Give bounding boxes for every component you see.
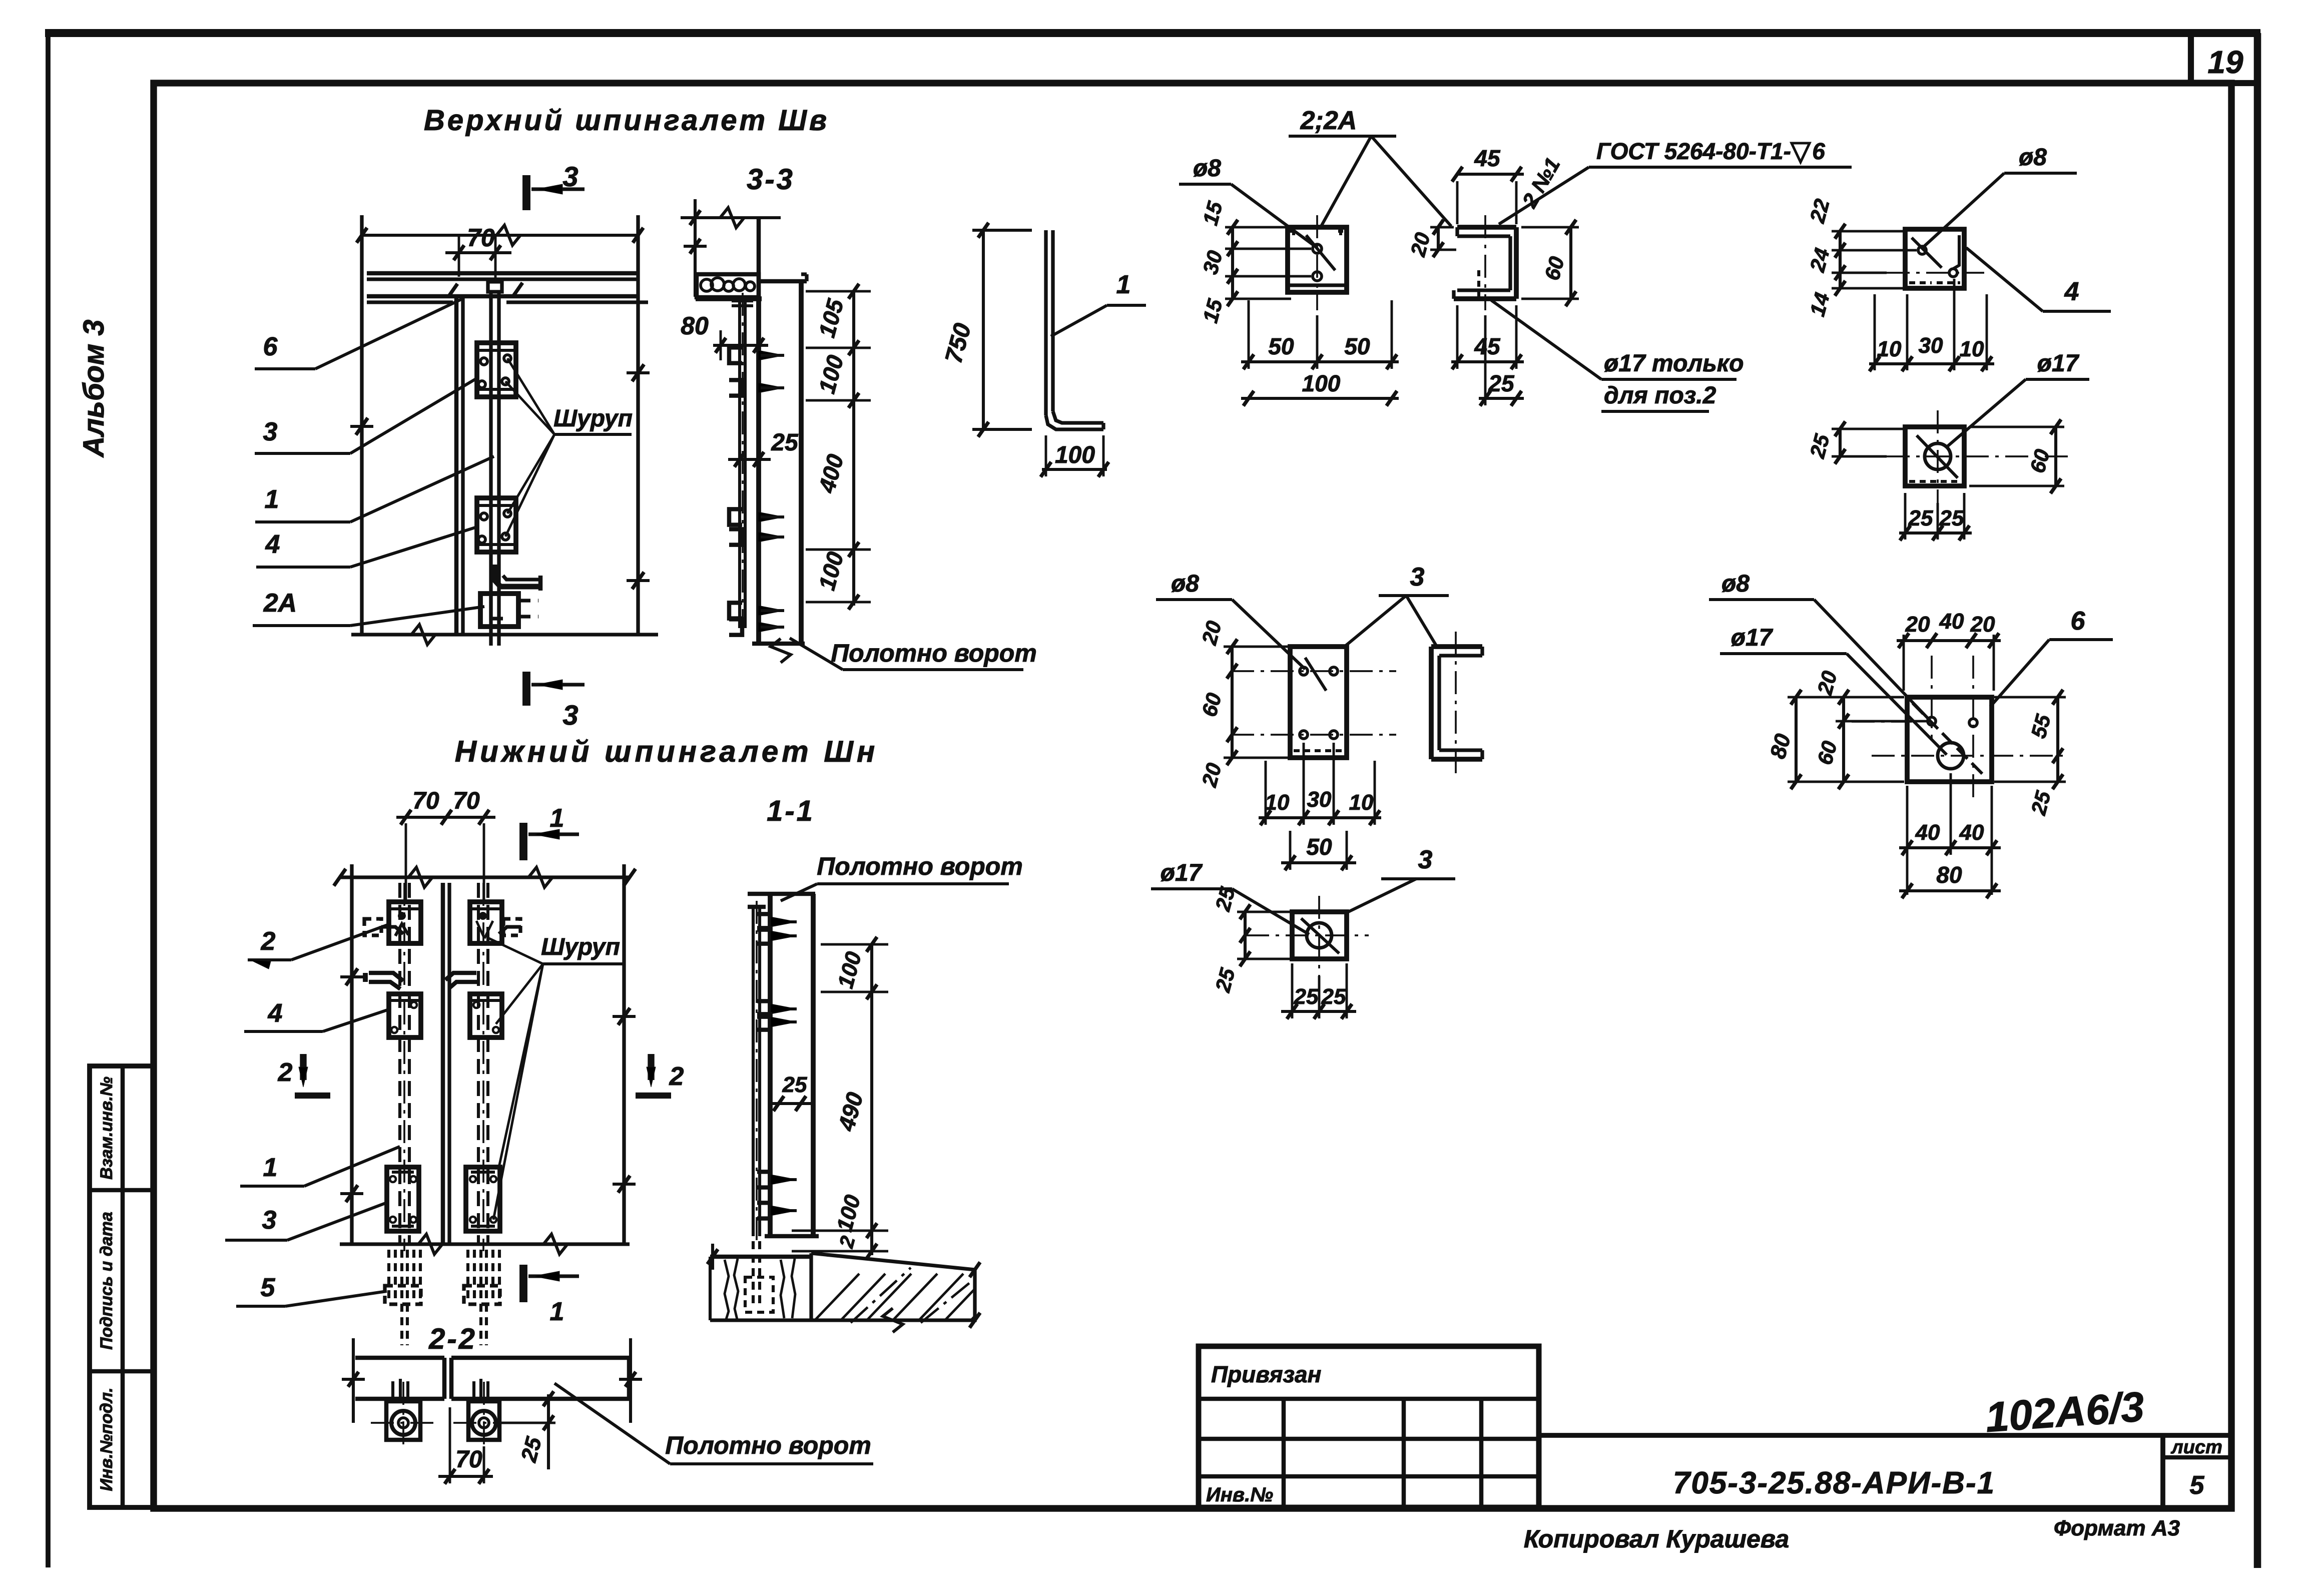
part4b: dim 60 right bbox=[2054, 427, 2057, 486]
svg-text:Привязан: Привязан bbox=[1211, 1361, 1321, 1387]
sec3-3: beam bottom line bbox=[696, 296, 762, 301]
upper plan: screw slash on rail left bbox=[448, 284, 457, 297]
sec1-1: ground top left line bbox=[710, 1255, 811, 1259]
sec1-1: concrete slab outline bbox=[710, 1253, 975, 1320]
part3: dia8 leader bbox=[1232, 600, 1305, 669]
svg-text:1: 1 bbox=[265, 485, 279, 514]
svg-text:3: 3 bbox=[562, 161, 578, 192]
svg-text:10: 10 bbox=[1265, 790, 1290, 815]
upper plan: right boundary break tick bbox=[632, 364, 644, 381]
svg-text:4: 4 bbox=[268, 999, 283, 1028]
svg-text:1: 1 bbox=[550, 804, 564, 833]
lower plan: left boundary bbox=[350, 864, 353, 1244]
sec1-1: rod top cap bbox=[748, 905, 766, 909]
sec2-2: right extension vertical bbox=[629, 1338, 632, 1423]
svg-text:40: 40 bbox=[1915, 820, 1940, 845]
svg-text:Копировал Курашева: Копировал Курашева bbox=[1524, 1525, 1789, 1553]
part3b: big hole bbox=[1307, 923, 1332, 948]
svg-text:Полотно ворот: Полотно ворот bbox=[817, 852, 1023, 880]
svg-text:100: 100 bbox=[1055, 442, 1095, 468]
upper plan: door head rail line 2 bbox=[367, 277, 638, 281]
svg-text:45: 45 bbox=[1474, 333, 1501, 359]
part3: dim 50 bbox=[1281, 861, 1356, 864]
svg-text:ГОСТ 5264-80-Т1-: ГОСТ 5264-80-Т1- bbox=[1596, 138, 1791, 164]
outer border top line bbox=[45, 29, 2260, 37]
part4b: weld slash bbox=[1917, 435, 1958, 478]
part4b: dim 25 left bbox=[1839, 429, 1842, 456]
upper plan: section mark 3 top arrow bbox=[531, 187, 585, 191]
lower plan: right middle plate 4 bbox=[470, 994, 502, 1037]
part6: plate outline bbox=[1907, 697, 1992, 782]
lower plan: right lower plate 3 bbox=[466, 1167, 500, 1231]
upper plan: door head rail line 4 bbox=[367, 300, 453, 304]
svg-text:3-3: 3-3 bbox=[747, 163, 795, 196]
svg-text:Инв.№: Инв.№ bbox=[1206, 1484, 1273, 1506]
svg-text:3: 3 bbox=[263, 417, 278, 446]
upper plan: door leaf gap line 2 bbox=[461, 296, 464, 635]
sec2-2: right keeper square bbox=[468, 1401, 499, 1440]
svg-text:25: 25 bbox=[1294, 984, 1319, 1009]
sec3-3: latch rod line 1 bbox=[738, 297, 741, 628]
sec2-2: dim 25 bbox=[547, 1394, 550, 1469]
titleblock: designation rule bbox=[1539, 1433, 2229, 1438]
upper plan: latch rod top cap bbox=[488, 282, 502, 292]
sec3-3: right dim chain extension lines bbox=[806, 290, 871, 293]
upper plan: right boundary line bbox=[636, 215, 640, 635]
upper plan: upper plate screw holes bbox=[480, 358, 487, 365]
sec1-1: leaf top cap bbox=[748, 892, 815, 896]
part1: dim 750 line bbox=[982, 230, 985, 429]
part4: bottom dim 10 30 10 bbox=[1869, 362, 1994, 365]
upper plan: door head rail line 3 bbox=[367, 294, 638, 299]
part1: L-bar bottom bend bbox=[1046, 415, 1103, 429]
part4: plate hole top bbox=[1918, 246, 1926, 254]
sec2-2: right keeper screws dashes bbox=[472, 1381, 475, 1401]
svg-text:Формат А3: Формат А3 bbox=[2054, 1516, 2180, 1540]
svg-text:для поз.2: для поз.2 bbox=[1604, 382, 1716, 409]
part6: bottom dim 40 40 bbox=[1899, 846, 2001, 849]
upper plan: latch rod right edge bbox=[497, 292, 500, 646]
part3: bottom dim 10 30 10 bbox=[1259, 816, 1381, 819]
sheet number box top-right bbox=[2191, 33, 2257, 83]
stamp table row line 1 bbox=[90, 1188, 154, 1193]
svg-text:Полотно ворот: Полотно ворот bbox=[665, 1431, 871, 1459]
part4b: bottom dim 25 25 bbox=[1899, 531, 1972, 535]
svg-text:70: 70 bbox=[412, 788, 439, 814]
svg-text:70: 70 bbox=[467, 224, 495, 252]
det2: part2 side view web bbox=[1508, 236, 1512, 290]
upper plan: keeper 2A dashes bbox=[518, 599, 538, 602]
sec1-1: hooks and arrows bbox=[757, 914, 770, 929]
svg-text:40: 40 bbox=[1959, 820, 1984, 845]
det2: part2 side centerline bbox=[1484, 215, 1486, 310]
svg-text:20: 20 bbox=[1970, 612, 1995, 637]
upper plan: latch rod left edge bbox=[489, 292, 492, 646]
svg-text:10: 10 bbox=[1349, 790, 1374, 815]
det2: dim 100 line bbox=[1241, 397, 1399, 400]
sec1-1: chain extensions bbox=[821, 943, 888, 946]
lower plan: dim extensions bbox=[405, 823, 407, 901]
sec3-3: dim 80 extension bbox=[720, 330, 722, 360]
part4b: plate with hole outline bbox=[1905, 427, 1964, 486]
svg-text:6: 6 bbox=[2071, 607, 2086, 636]
svg-text:1-1: 1-1 bbox=[767, 795, 815, 827]
sec2-2: left bar right cap bbox=[442, 1358, 447, 1399]
sec1-1: concrete hatch bbox=[807, 1274, 1015, 1329]
upper plan: dim 70 line bbox=[445, 251, 511, 254]
svg-text:25: 25 bbox=[1939, 506, 1964, 530]
part6: centerline v1 bbox=[1931, 656, 1933, 741]
svg-text:705-3-25.88-АРИ-В-1: 705-3-25.88-АРИ-В-1 bbox=[1673, 1466, 1995, 1500]
part6: bottom dim 80 bbox=[1899, 889, 2001, 892]
svg-text:Шуруп: Шуруп bbox=[553, 405, 633, 432]
upper plan: section mark 3 bottom bar bbox=[522, 672, 530, 706]
part3: side channel centerline bbox=[1455, 632, 1457, 775]
svg-text:Альбом 3: Альбом 3 bbox=[78, 319, 110, 458]
sec3-3: left extension vertical bbox=[694, 199, 697, 297]
lower plan: left top keeper hook bbox=[381, 927, 403, 934]
lower plan: section mark 1 bottom bbox=[519, 1265, 527, 1302]
lower plan: left lever handle bbox=[369, 973, 403, 981]
part4: weld slash bbox=[1912, 238, 1942, 268]
svg-text:30: 30 bbox=[1919, 333, 1943, 358]
svg-text:10: 10 bbox=[1960, 337, 1984, 361]
det2: part2 side dashed hole bbox=[1477, 270, 1480, 299]
part6: left dim 20 60 bbox=[1842, 697, 1845, 782]
part3: front plate weld slash bbox=[1305, 658, 1326, 691]
det2: plate2 front outline bbox=[1288, 227, 1347, 292]
svg-text:Полотно ворот: Полотно ворот bbox=[831, 639, 1037, 667]
part6: hole right bbox=[1969, 719, 1977, 727]
svg-text:лист: лист bbox=[2170, 1437, 2222, 1458]
sec1-1: leaf left face bbox=[768, 894, 773, 1236]
svg-text:2А: 2А bbox=[263, 589, 297, 618]
sec3-3: door leaf left face bbox=[756, 297, 761, 644]
sec3-3: top datum line bbox=[681, 216, 781, 219]
part6: top dim 20 40 20 bbox=[1897, 639, 2001, 642]
sec2-2: left bar bottom bbox=[355, 1397, 444, 1401]
part3: side channel top flange bbox=[1431, 644, 1482, 649]
sec3-3: dim 80 line bbox=[713, 344, 768, 347]
upper plan: lower plate screw holes bbox=[480, 513, 487, 520]
det2: plate2 bottom double line bbox=[1288, 283, 1347, 287]
svg-text:3: 3 bbox=[1410, 563, 1425, 592]
titleblock: privyazan vlines bbox=[1282, 1399, 1286, 1507]
svg-text:5: 5 bbox=[261, 1273, 276, 1302]
part6: centerline h big hole bbox=[1872, 755, 2067, 757]
sec2-2: dim 70 bbox=[438, 1475, 493, 1478]
lower plan: right boundary bbox=[622, 864, 626, 1244]
svg-text:80: 80 bbox=[681, 312, 709, 340]
part4b: centerline vertical bbox=[1937, 410, 1939, 503]
lower plan: right bottom keeper 5 dashed bbox=[464, 1286, 500, 1304]
det2: dim 25 bottom line bbox=[1479, 397, 1524, 400]
svg-text:1: 1 bbox=[1116, 270, 1131, 299]
lower plan: right top keeper plate 2 bbox=[470, 902, 502, 943]
svg-text:45: 45 bbox=[1474, 145, 1501, 171]
det2: plate2 holes bbox=[1313, 244, 1322, 253]
svg-text:Нижний шпингалет Шн: Нижний шпингалет Шн bbox=[455, 735, 879, 768]
sec3-3: wood beam grain bbox=[701, 279, 713, 291]
lower plan: dim 70 70 bbox=[396, 816, 495, 819]
svg-text:2: 2 bbox=[669, 1062, 684, 1091]
svg-text:ø8: ø8 bbox=[1721, 571, 1750, 597]
outer border right line bbox=[2254, 33, 2261, 1568]
stamp table column divider bbox=[121, 1066, 125, 1507]
svg-text:40: 40 bbox=[1939, 609, 1964, 634]
upper plan: right boundary break tick 2 bbox=[632, 572, 644, 589]
part3b: centerline vertical bbox=[1318, 896, 1320, 976]
lower plan: bottom boundary bbox=[340, 1242, 630, 1246]
svg-text:2;2А: 2;2А bbox=[1300, 106, 1357, 135]
svg-text:Верхний шпингалет Шв: Верхний шпингалет Шв bbox=[424, 104, 829, 137]
part3: side channel bottom flange bbox=[1439, 748, 1482, 752]
sec2-2: right keeper circle bbox=[472, 1411, 496, 1435]
part4: plate centerline horizontal bbox=[1887, 272, 1984, 274]
svg-text:25: 25 bbox=[1488, 370, 1515, 396]
upper plan: dim 70 extension left bbox=[458, 236, 460, 277]
sec1-1: bottom break bbox=[883, 1308, 903, 1332]
sec1-1: polotno leader bbox=[781, 884, 817, 901]
part4b: bottom dashes bbox=[1909, 480, 1960, 483]
svg-text:30: 30 bbox=[1307, 787, 1332, 812]
part6: dia8 leader bbox=[1814, 600, 1930, 721]
det2: gost leader bbox=[1499, 167, 1589, 224]
part1: dim 750 bottom tick line bbox=[972, 428, 1032, 431]
part6: big hole bbox=[1938, 743, 1964, 769]
lower plan: left middle plate 4 bbox=[389, 994, 421, 1037]
svg-text:ø17: ø17 bbox=[1161, 860, 1203, 886]
svg-text:19: 19 bbox=[2207, 44, 2243, 80]
part4b: big hole bbox=[1925, 443, 1951, 469]
svg-text:4: 4 bbox=[265, 530, 280, 559]
sec3-3: right dim chain slashes bbox=[849, 284, 859, 299]
lower plan: left top keeper plate 2 bbox=[389, 902, 421, 943]
sec3-3: latch rod centerline bbox=[742, 293, 744, 636]
sec3-3: leaf bottom line bbox=[752, 642, 805, 646]
outer border left line bbox=[46, 32, 51, 1567]
upper plan: shurup leader lines bbox=[507, 358, 554, 434]
sec3-3: dim 25 line bbox=[728, 458, 771, 461]
sec1-1: leaf bottom bbox=[765, 1234, 819, 1239]
part1: dim 750 top tick line bbox=[972, 229, 1032, 232]
part3: side channel web bbox=[1429, 647, 1434, 759]
svg-text:50: 50 bbox=[1306, 834, 1332, 860]
sec3-3: left tick mid bbox=[690, 239, 701, 254]
stamp table row line 2 bbox=[90, 1369, 154, 1374]
svg-text:6: 6 bbox=[263, 332, 278, 361]
part3: leaders from 3 bbox=[1343, 596, 1406, 648]
det2: part2 side view top flange bbox=[1457, 225, 1516, 230]
svg-text:70: 70 bbox=[455, 1446, 482, 1473]
sec2-2: right keeper crosshairs bbox=[453, 1422, 514, 1424]
lower plan: right lever handle bbox=[445, 973, 476, 980]
part4: plate hole right bbox=[1949, 269, 1957, 277]
part4: plate notch bbox=[1953, 235, 1959, 269]
part4: plate bottom dashes bbox=[1909, 281, 1932, 284]
upper plan: left boundary line bbox=[360, 215, 363, 635]
lower plan: right keeper inner V bbox=[476, 921, 484, 938]
svg-text:ø17: ø17 bbox=[2037, 350, 2080, 377]
part1: dim 100 line bbox=[1042, 468, 1107, 471]
part3b: centerline horizontal bbox=[1246, 934, 1369, 936]
lower plan: right bottom dashed screws bbox=[466, 1250, 469, 1302]
det2: part2 side view bottom flange bbox=[1457, 288, 1510, 292]
det2: part2 side flange end caps bbox=[1455, 227, 1459, 236]
upper plan: keeper 2A outline bbox=[480, 594, 518, 627]
part3b: keeper plate outline bbox=[1292, 912, 1347, 959]
det2: dim 50 50 line bbox=[1241, 360, 1399, 363]
svg-text:3: 3 bbox=[1418, 845, 1433, 874]
upper plan: keeper 2A hook inside bbox=[491, 594, 503, 619]
lower plan: center gap lines bbox=[441, 883, 445, 1244]
upper plan: bottom boundary line bbox=[351, 633, 658, 636]
titleblock: privyazan box outline bbox=[1199, 1346, 1539, 1507]
part3b: leader 3 bbox=[1345, 879, 1416, 913]
sec1-1: concrete dashdot diagonals bbox=[851, 1268, 911, 1323]
svg-text:25: 25 bbox=[1908, 506, 1933, 530]
upper plan: section mark 3 bottom arrow bbox=[531, 683, 585, 686]
lower plan: left rod dashed bbox=[398, 883, 401, 1244]
upper plan: upper guide plate 3 inner lines bbox=[477, 349, 516, 352]
svg-text:20: 20 bbox=[1905, 612, 1930, 637]
upper plan: rod handle bend bbox=[495, 565, 540, 587]
sec2-2: left bar top bbox=[355, 1356, 444, 1360]
svg-text:Инв.№подл.: Инв.№подл. bbox=[97, 1387, 116, 1491]
svg-text:ø8: ø8 bbox=[2019, 144, 2047, 171]
lower plan: left bottom dashed screws bbox=[387, 1250, 390, 1302]
svg-text:50: 50 bbox=[1344, 333, 1370, 359]
part3b: bottom dim 25 25 bbox=[1281, 1010, 1356, 1013]
sec1-1: keeper 5 dashed box bbox=[745, 1277, 773, 1312]
det2: plate2 corner notches bbox=[1292, 227, 1295, 235]
sec2-2: right bar top bbox=[451, 1356, 629, 1360]
part3: front plate outline bbox=[1290, 647, 1347, 758]
part3: left dim chain bbox=[1231, 647, 1234, 758]
sec2-2: right bar bottom bbox=[451, 1397, 629, 1401]
sec1-1: latch rod lines bbox=[752, 907, 755, 1236]
sec2-2: left extension vertical bbox=[352, 1338, 355, 1423]
svg-text:ø17 только: ø17 только bbox=[1604, 350, 1744, 377]
svg-text:ø17: ø17 bbox=[1731, 625, 1774, 651]
upper plan: screw slash on rail right bbox=[513, 283, 522, 296]
sec1-1: rod centerline bbox=[756, 901, 758, 1241]
sec2-2: polotno leader bbox=[554, 1383, 670, 1464]
sec1-1: left edge vertical bbox=[709, 1257, 712, 1320]
part6: left dim 80 bbox=[1795, 697, 1798, 782]
sec1-1: right end ticks bbox=[970, 1262, 980, 1277]
svg-text:50: 50 bbox=[1268, 333, 1294, 359]
lower plan: shurup leaders bbox=[487, 937, 543, 964]
sec3-3: rod top plate bbox=[732, 298, 753, 303]
det2: dim 45 bottom line bbox=[1451, 360, 1524, 363]
part6: centerline v2 bbox=[1972, 656, 1974, 801]
svg-text:70: 70 bbox=[453, 788, 480, 814]
svg-text:10: 10 bbox=[1877, 337, 1902, 361]
sec1-1: leaf right face bbox=[811, 894, 816, 1236]
part4b: centerline horizontal bbox=[1887, 455, 2072, 457]
part4: left dim chain bbox=[1839, 231, 1842, 288]
upper plan: left boundary break tick bbox=[356, 418, 368, 435]
lower plan: right top keeper hook bbox=[499, 927, 521, 934]
upper plan: upper guide plate 3 outline bbox=[477, 343, 516, 397]
det2: leaders from 2;2A bbox=[1321, 136, 1371, 226]
svg-text:3: 3 bbox=[562, 699, 578, 731]
part6: right dim 55 25 bbox=[2056, 697, 2059, 782]
part6: weld dash slash bbox=[1913, 703, 1984, 776]
svg-text:25: 25 bbox=[1321, 984, 1346, 1009]
sec3-3: door leaf right face bbox=[799, 280, 804, 644]
upper plan: lower guide plate 4 inner lines bbox=[477, 504, 516, 507]
det2: left dim chain line bbox=[1231, 227, 1234, 299]
upper plan: dim 70 extension right bbox=[494, 236, 497, 282]
det2: left dim chain extensions bbox=[1225, 226, 1291, 229]
det2: left dim chain slashes bbox=[1228, 220, 1238, 235]
lower plan: left lower plate 3 bbox=[387, 1167, 419, 1231]
svg-text:25: 25 bbox=[782, 1073, 807, 1097]
sec2-2: left keeper crosshairs bbox=[371, 1422, 436, 1424]
titleblock: list cell bbox=[2160, 1435, 2165, 1507]
sec2-2: left keeper circle bbox=[391, 1411, 415, 1435]
part1: dim 100 extensions bbox=[1045, 435, 1047, 476]
lower plan: left bottom keeper 5 dashed bbox=[385, 1286, 421, 1304]
det2: dim 45 top extensions bbox=[1456, 181, 1459, 224]
svg-text:5: 5 bbox=[2190, 1471, 2205, 1500]
upper plan: door head rail line 1 bbox=[367, 271, 638, 276]
sec1-1: wood grain waves bbox=[725, 1260, 729, 1319]
part3: side channel flange caps bbox=[1480, 647, 1484, 656]
sec2-2: right bar caps bbox=[449, 1358, 454, 1399]
part3: front plate holes bbox=[1300, 667, 1308, 675]
upper plan: lower guide plate 4 outline bbox=[477, 498, 516, 552]
part3b: dia17 leader bbox=[1232, 889, 1309, 934]
det2: note leader bbox=[1491, 300, 1601, 379]
upper plan: section mark 3 top bar bbox=[522, 175, 530, 210]
part4: plate outline bbox=[1905, 229, 1964, 288]
det2: dim 50 50 extensions bbox=[1248, 300, 1250, 369]
part6: centerline h holes bbox=[1852, 721, 1912, 723]
part3: hole centerlines bbox=[1231, 670, 1396, 672]
part4b: dia17 leader bbox=[1947, 379, 2026, 447]
part1: L-bar vertical bbox=[1044, 230, 1047, 415]
svg-text:2-2: 2-2 bbox=[428, 1323, 477, 1355]
svg-text:80: 80 bbox=[1936, 862, 1962, 888]
svg-text:6: 6 bbox=[1812, 138, 1825, 164]
sec1-1: rod dashed into floor bbox=[752, 1241, 755, 1309]
sec1-1: right dim chain bbox=[870, 944, 873, 1255]
svg-text:100: 100 bbox=[1302, 370, 1341, 396]
svg-text:3: 3 bbox=[262, 1206, 277, 1235]
svg-text:1: 1 bbox=[550, 1297, 564, 1326]
sec1-1: wood concrete boundary bbox=[809, 1253, 813, 1320]
svg-text:ø8: ø8 bbox=[1193, 155, 1221, 182]
sec3-3: door leaf top cap bbox=[759, 279, 807, 284]
svg-text:2: 2 bbox=[261, 927, 276, 956]
svg-text:2: 2 bbox=[278, 1058, 293, 1087]
part3b: weld slash bbox=[1301, 918, 1339, 953]
sec3-3: wood beam outline bbox=[697, 274, 759, 297]
upper plan: top datum line bbox=[362, 234, 638, 237]
det2: plate2 weld slash bbox=[1306, 235, 1335, 270]
part4: dia8 leader bbox=[1924, 173, 2004, 246]
part3: front plate bottom dashed bbox=[1294, 749, 1343, 752]
sec3-3: wall edge vertical bbox=[757, 218, 761, 297]
part3b: left dim chain bbox=[1244, 912, 1247, 959]
svg-text:Подпись и дата: Подпись и дата bbox=[97, 1212, 116, 1350]
sec1-1: left end tick bbox=[708, 1249, 718, 1264]
part6: hole left bbox=[1928, 717, 1936, 725]
sec3-3: polotno leader bbox=[790, 638, 843, 670]
